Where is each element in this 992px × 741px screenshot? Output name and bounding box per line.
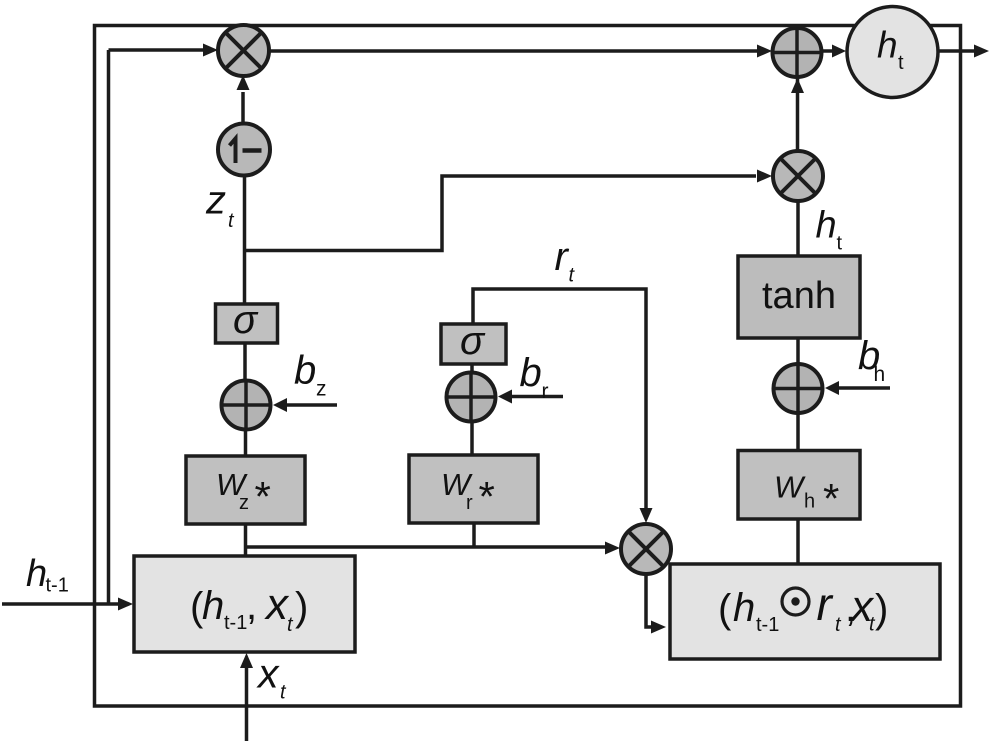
multiply node M1 bbox=[218, 25, 269, 76]
wire z(t) branch to multiply M2 bbox=[245, 176, 757, 251]
label b(r) bbox=[520, 351, 549, 403]
multiply node M3 bbox=[621, 524, 671, 574]
wire tanh to adder Ah bbox=[796, 337, 800, 366]
svg-text:x: x bbox=[256, 651, 280, 697]
svg-text:t-1: t-1 bbox=[46, 575, 69, 597]
wire one-minus to M1 bbox=[241, 92, 245, 124]
wire Wh box to concat box B2 bbox=[796, 518, 800, 563]
label h(t-1) input bbox=[26, 553, 69, 597]
wire adder Az to Wz box bbox=[244, 430, 248, 456]
svg-text:z: z bbox=[316, 378, 327, 401]
wire sigma-z up to one-minus bbox=[243, 176, 247, 304]
svg-text:): ) bbox=[875, 587, 888, 631]
label h(t) tilde-branch bbox=[816, 205, 843, 255]
svg-text:t: t bbox=[898, 52, 904, 74]
wire M2 up to adder A1 bbox=[796, 26, 800, 152]
sigma box Sz bbox=[216, 298, 278, 343]
svg-text:z: z bbox=[205, 179, 226, 223]
wire sigma-z to adder Az bbox=[243, 343, 247, 382]
svg-text:b: b bbox=[294, 349, 316, 393]
svg-text:r: r bbox=[542, 380, 549, 403]
svg-text:h: h bbox=[816, 205, 837, 247]
multiply node M2 bbox=[773, 151, 823, 201]
output circle h(t) bbox=[847, 7, 938, 98]
svg-text:r: r bbox=[555, 235, 570, 279]
weight box Wr bbox=[409, 455, 538, 523]
svg-text:t-1: t-1 bbox=[756, 614, 779, 636]
sigma box Sr bbox=[441, 319, 506, 364]
wire output arrow right bbox=[936, 49, 974, 53]
svg-text:): ) bbox=[295, 585, 308, 629]
wire A1 to output circle bbox=[820, 49, 834, 53]
svg-text:W: W bbox=[774, 470, 806, 505]
concat box B2 bbox=[670, 564, 940, 659]
svg-text:h: h bbox=[733, 586, 755, 630]
adder node A1 bbox=[773, 28, 822, 77]
svg-text:r: r bbox=[817, 578, 834, 630]
adder node Ar bbox=[447, 373, 496, 422]
concat box B1 bbox=[134, 556, 355, 652]
wire bias bh arrow bbox=[838, 386, 890, 390]
one-minus node bbox=[218, 124, 270, 176]
wire recurrent h(t-1) loop vertical bbox=[107, 50, 111, 604]
wire adder Ar to Wr box bbox=[470, 420, 474, 455]
wire M2 down to tanh bbox=[796, 201, 800, 256]
label b(h) bbox=[858, 334, 885, 386]
wire bias bz arrow bbox=[286, 403, 337, 407]
adder node Az bbox=[222, 381, 271, 430]
svg-text:h: h bbox=[202, 584, 224, 628]
wire input x(t) arrow bbox=[245, 667, 249, 741]
label z(t) bbox=[205, 179, 235, 233]
adder node Ah bbox=[774, 364, 823, 413]
wire Wz box to concat box B1 bbox=[244, 523, 248, 556]
wire Wr box down to bus bbox=[472, 522, 476, 547]
svg-text:h: h bbox=[804, 491, 815, 513]
tanh box bbox=[738, 256, 860, 338]
svg-text:*: * bbox=[255, 473, 271, 520]
weight box Wz bbox=[186, 456, 305, 524]
wire M1 to adder A1 bbox=[266, 49, 758, 53]
svg-text:*: * bbox=[479, 473, 495, 520]
wire M3 output into box B2 bbox=[646, 574, 652, 627]
svg-text:σ: σ bbox=[460, 319, 486, 363]
weight box Wh bbox=[738, 451, 860, 523]
svg-text:h: h bbox=[874, 363, 886, 386]
wire input h(t-1) arrow bbox=[2, 602, 118, 606]
wire bias br arrow bbox=[511, 395, 563, 399]
svg-text:σ: σ bbox=[233, 298, 259, 342]
wire r(t) from sigma-r to multiply M3 bbox=[473, 289, 646, 508]
svg-text:,: , bbox=[246, 584, 257, 628]
svg-text:tanh: tanh bbox=[762, 275, 836, 317]
svg-text:t: t bbox=[837, 233, 843, 255]
wire into multiply M1 horizontal bbox=[109, 48, 206, 52]
wire bus concat to multiply M3 bbox=[245, 545, 607, 549]
svg-text:(: ( bbox=[718, 587, 732, 631]
svg-text:h: h bbox=[877, 25, 898, 66]
svg-text:b: b bbox=[520, 351, 542, 395]
wire sigma-r to adder Ar bbox=[470, 363, 474, 374]
svg-text:*: * bbox=[823, 475, 839, 522]
label b(z) bbox=[294, 349, 327, 401]
wire adder Ah to Wh box bbox=[796, 412, 800, 450]
svg-text:r: r bbox=[466, 492, 473, 514]
label r(t) bbox=[555, 235, 576, 287]
svg-text:z: z bbox=[239, 492, 249, 514]
svg-text:h: h bbox=[26, 553, 47, 595]
label x(t) input bbox=[256, 651, 287, 704]
svg-text:t-1: t-1 bbox=[224, 612, 247, 634]
